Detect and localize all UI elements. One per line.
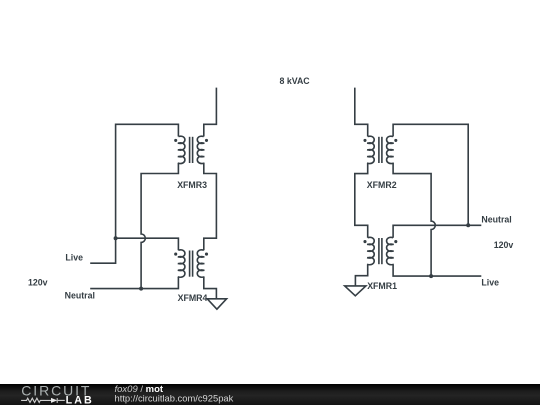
svg-text:LAB: LAB <box>66 394 94 405</box>
svg-text:http://circuitlab.com/c925pak: http://circuitlab.com/c925pak <box>115 393 234 404</box>
